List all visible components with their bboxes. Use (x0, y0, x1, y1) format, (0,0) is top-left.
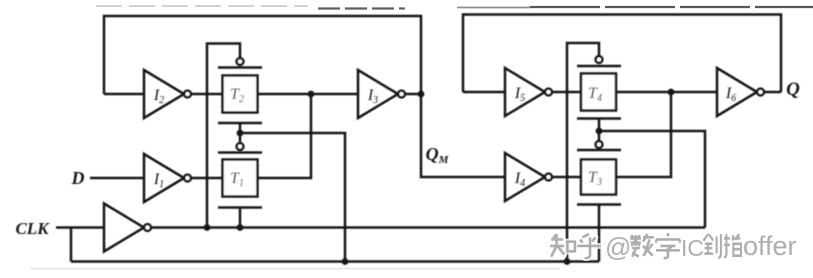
wire CLK branch to bottom rail (70, 228, 73, 262)
junction slave internal node (668, 89, 675, 96)
inverter I6 (717, 68, 757, 116)
wire T2 output to I3 (258, 93, 359, 96)
wire I4 output to T3 (552, 176, 581, 179)
wire T4 P-gate loop to CLK rail (567, 43, 599, 262)
svg-text:CLK: CLK (15, 219, 50, 238)
wire T4 N-gate / T3 P-gate node (598, 119, 601, 142)
wire CLK input (56, 226, 104, 229)
junction master internal node (308, 91, 315, 98)
wire CLK bottom rail (71, 260, 599, 263)
transmission gate T4 (581, 74, 616, 111)
wire D input (90, 177, 144, 180)
wire I1 output to T1 (191, 177, 223, 180)
inverter I1 (144, 154, 184, 202)
wire I3 output to junction (405, 93, 421, 96)
wire CLKb row (151, 226, 705, 229)
wire T3 N-gate to CLK rail (598, 205, 601, 262)
wire I2 output to T2 (191, 93, 223, 96)
svg-text:offer: offer (743, 231, 797, 261)
wire I5 input (463, 91, 505, 94)
svg-text:Q: Q (786, 79, 800, 100)
junction T2 P-gate at CLKb row (204, 224, 211, 231)
inverter I3 (358, 70, 398, 118)
junction T4 N-gate / T3 P-gate node (596, 128, 603, 135)
wire I5 output to T4 (552, 91, 581, 94)
wire T2 P-gate loop to CLKb row (207, 44, 240, 228)
svg-text:IC: IC (681, 235, 704, 261)
wire QM down to I4 (421, 94, 505, 177)
wire gate node to CLKb row right end (599, 131, 705, 228)
wire T4 output to I6 (616, 91, 717, 94)
junction gate node at CLK rail (342, 258, 349, 265)
wire T1 output riser (258, 94, 312, 178)
wire I2 input (104, 93, 144, 96)
svg-text:@: @ (605, 232, 631, 262)
svg-text:D: D (71, 168, 85, 188)
inverter I2 (144, 70, 184, 118)
wire gate node to CLK rail (240, 133, 345, 262)
wire top-left feedback rail (104, 16, 421, 94)
watermark overlay (550, 231, 796, 262)
transmission gate T1 (223, 160, 258, 197)
junction I3 output node (418, 91, 425, 98)
inverter I4 (505, 153, 545, 201)
wire T2 N-gate / T1 P-gate node (239, 123, 242, 143)
junction T4 P-gate at CLK rail (564, 258, 571, 265)
wire top-right feedback rail (463, 15, 781, 93)
wire I6 output to Q (764, 91, 781, 94)
transmission gate T3 (581, 160, 616, 195)
wire T1 N-gate to CLKb row (239, 208, 242, 228)
junction T2 N-gate / T1 P-gate node (237, 130, 244, 137)
inverter I5 (505, 68, 545, 116)
wire T3 output riser (616, 92, 671, 177)
transmission gate T2 (223, 76, 258, 113)
inverter CLK buffer (104, 204, 144, 252)
junction T1 N-gate at CLKb row (237, 224, 244, 231)
